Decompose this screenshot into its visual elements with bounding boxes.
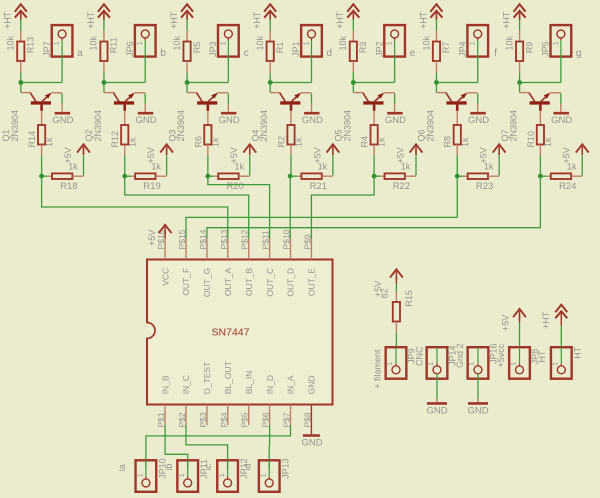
svg-text:R15: R15 [404,290,414,307]
ground symbol at Q3 [221,112,237,115]
wire R13 to node [20,61,22,72]
wire R22 to +5V [405,175,416,177]
connector JP1 [301,25,322,56]
wire segment e to SN7447 [311,178,374,239]
wire R7 to node [435,61,437,72]
svg-text:+5vcc: +5vcc [496,343,506,367]
ground symbol at Q2 [138,112,154,115]
wire R15 to JP9 [395,322,397,334]
svg-text:1: 1 [52,41,61,45]
svg-text:OUT_G: OUT_G [202,268,212,297]
wire +5V to R15 [395,276,397,284]
svg-text:2N3904: 2N3904 [425,110,435,142]
svg-text:BL_IN: BL_IN [244,371,254,395]
svg-text:+HT: +HT [541,311,551,329]
svg-text:10k: 10k [172,35,182,50]
svg-text:g: g [576,48,582,59]
connector JP11 [177,460,198,492]
wire JP14 to GND [436,374,438,399]
wire net ia : IN_A (P$7) to JP10 [146,425,291,469]
resistor R7 [433,42,440,62]
wire emitter Q4 to GND [310,94,312,104]
wire node to collector Q4 [269,81,271,84]
svg-text:ic: ic [203,464,213,471]
resistor R4 [371,125,378,145]
svg-text:10k: 10k [421,35,431,50]
resistor R14 [38,125,45,145]
svg-text:R21: R21 [310,181,327,192]
svg-text:P$5: P$5 [240,412,250,427]
svg-text:+5V: +5V [395,147,405,163]
wire +HT to R11 [103,15,105,20]
svg-text:1: 1 [135,473,144,477]
pin P$7 stub (bottom) [290,405,292,426]
pin P$6 stub (bottom) [269,405,271,426]
svg-text:2N3904: 2N3904 [176,110,186,142]
wire +HT to R1 [269,15,271,20]
svg-text:+5V: +5V [63,147,73,163]
svg-text:1: 1 [467,362,476,366]
svg-text:HT: HT [537,350,547,362]
svg-text:D_TEST: D_TEST [202,362,212,395]
resistor R21 [301,173,321,179]
junction node R2/R21 [288,174,293,179]
wire +HT to R7 [435,15,437,20]
power +HT arrow (segment g column) [514,4,526,12]
wire JP3 to node [227,57,229,83]
pin P$1 stub (bottom) [164,405,166,426]
svg-text:1: 1 [177,473,186,477]
wire node to collector Q7 [519,81,521,84]
svg-text:a: a [77,48,83,59]
wire R1 to node [269,61,271,72]
svg-text:P$11: P$11 [261,230,271,249]
power +5V arrow at R15 [390,269,403,277]
svg-text:f: f [494,48,497,59]
svg-text:+5V: +5V [229,147,239,163]
svg-text:R10: R10 [526,131,536,148]
svg-text:+HT: +HT [169,11,179,29]
svg-text:VCC: VCC [160,268,170,286]
resistor R6 [204,125,211,145]
connector JP14 [427,347,448,379]
pin P$10 stub (top) [290,239,292,260]
svg-text:1k: 1k [44,137,54,147]
svg-text:1: 1 [218,41,227,45]
connector JP6 [135,25,156,56]
junction node collector Q7 [517,80,522,85]
resistor R22 [385,173,405,179]
resistor R20 [218,173,238,179]
wire emitter Q6 to GND [477,94,479,104]
transistor Q2 [104,83,145,111]
wire segment f to SN7447 [186,178,457,239]
power +5V arrow at R20 [243,144,256,152]
svg-text:GND: GND [135,115,156,126]
resistor R19 [135,173,155,179]
wire node to collector Q3 [186,81,188,84]
wire R14 to node [41,145,43,156]
wire node to collector Q5 [352,81,354,84]
junction node R4/R22 [372,174,377,179]
IC notch [146,323,150,337]
transistor Q5 [353,83,394,111]
svg-text:+5V: +5V [147,230,157,246]
svg-text:1: 1 [550,362,559,366]
wire node to R20 [208,175,214,177]
resistor R9 [516,42,523,62]
wire R9 to node [519,61,521,72]
wire JP1 to node [310,57,312,83]
svg-text:GND: GND [307,375,317,394]
transistor Q7 [520,83,561,111]
resistor R8 [454,125,461,145]
svg-text:IN_C: IN_C [181,375,191,394]
junction node collector Q2 [102,80,107,85]
svg-text:R24: R24 [559,181,576,192]
svg-text:JP6: JP6 [125,41,135,57]
wire emitter Q2 to GND [144,94,146,104]
svg-text:1k: 1k [543,137,553,147]
connector JP8 [509,347,530,379]
wire base Q3 to R6 [207,111,209,125]
svg-text:+5V: +5V [146,147,156,163]
svg-text:P$12: P$12 [240,229,250,249]
svg-text:GND: GND [467,405,488,416]
ground symbol at JP14 [427,402,447,405]
svg-text:2N3904: 2N3904 [93,110,103,142]
wire R20 to +5V [239,175,250,177]
svg-text:R1: R1 [275,42,285,54]
svg-text:82: 82 [379,288,389,298]
connector JP5 [551,25,572,56]
svg-text:R2: R2 [276,136,286,148]
svg-text:R11: R11 [109,37,119,53]
svg-text:ia: ia [117,464,127,471]
pin P$5 stub (bottom) [248,405,250,426]
svg-text:SN7447: SN7447 [212,327,250,339]
wire segment d to SN7447 [289,178,291,239]
power +5V arrow at R18 [77,144,90,152]
svg-text:+HT: +HT [418,11,428,29]
junction node R14/R18 [39,174,44,179]
svg-text:JP5: JP5 [541,41,551,57]
pin P$3 stub (bottom) [206,405,208,426]
svg-text:R6: R6 [193,136,203,148]
wire base Q2 to R12 [124,111,126,125]
svg-text:1: 1 [259,473,268,477]
svg-text:10k: 10k [6,35,16,50]
svg-text:OUT_F: OUT_F [181,268,191,296]
ground symbol at Q4 [304,112,320,115]
svg-text:GND: GND [52,115,73,126]
wire JP2 to node [394,57,396,83]
wire R5 to node [186,61,188,72]
junction node R12/R19 [122,174,127,179]
svg-text:1: 1 [135,41,144,45]
svg-text:2N3904: 2N3904 [509,110,519,142]
connector JP4 [467,25,488,56]
wire R4 to node [373,145,375,156]
svg-text:+ filament: + filament [373,349,383,389]
svg-text:IN_A: IN_A [286,375,296,394]
wire R24 to +5V [571,175,582,177]
svg-text:Gnd 2: Gnd 2 [455,343,465,368]
svg-text:+HT: +HT [335,11,345,29]
svg-text:10k: 10k [504,35,514,50]
ground symbol at P$8 [303,434,320,437]
svg-text:JP7: JP7 [42,41,52,57]
resistor R5 [183,42,190,62]
wire net ib : IN_B (P$1) to JP11 [165,425,188,469]
svg-text:ib: ib [164,463,174,470]
wire node to R21 [290,175,297,177]
wire base Q4 to R2 [290,111,292,125]
svg-text:2N3904: 2N3904 [10,110,20,142]
wire node to collector Q1 [20,81,22,84]
svg-text:R18: R18 [60,181,77,192]
resistor R11 [100,42,107,62]
junction node collector Q6 [434,80,439,85]
ground symbol at Q7 [553,112,569,115]
svg-text:2N3904: 2N3904 [259,110,269,142]
power +5V arrow at R24 [576,144,589,152]
svg-text:OUT_D: OUT_D [286,268,296,297]
svg-text:IN_D: IN_D [265,375,275,394]
svg-text:+HT: +HT [3,11,13,29]
svg-text:GND: GND [302,115,323,126]
svg-text:OUT_E: OUT_E [307,267,317,296]
pin P$9 stub (top) [310,239,312,260]
wire emitter Q5 to GND [394,94,396,104]
pin P$2 stub (bottom) [185,405,187,426]
svg-text:1: 1 [551,41,560,45]
wire node to collector Q2 [103,81,105,84]
svg-text:HT: HT [573,346,583,358]
svg-text:10k: 10k [255,35,265,50]
svg-text:+5V: +5V [501,315,511,331]
wire R6 to node [207,145,209,156]
svg-text:GND: GND [426,405,447,416]
wire R12 to node [124,145,126,156]
svg-text:GND: GND [385,115,406,126]
svg-text:1k: 1k [460,137,470,147]
wire segment c to SN7447 [208,178,270,239]
wire +5V to JP8 [519,315,521,323]
connector JP16 [468,347,489,379]
wire R10 to node [539,145,541,156]
svg-text:1: 1 [509,362,518,366]
svg-text:R12: R12 [110,131,120,148]
power +HT arrow (segment a column) [15,4,27,12]
svg-text:R23: R23 [476,181,493,192]
svg-text:10k: 10k [89,35,99,50]
transistor Q3 [187,83,228,111]
IC U1 SN7447 body [147,260,333,405]
junction node R10/R24 [538,174,543,179]
wire net id : IN_D (P$6) to JP13 [268,425,270,469]
svg-text:+HT: +HT [86,11,96,29]
connector JP15 [551,347,572,379]
pin P$15 stub (top) [185,239,187,260]
connector JP2 [384,25,405,56]
junction node collector Q4 [268,80,273,85]
svg-text:JP1: JP1 [291,41,301,57]
wire R11 to node [103,61,105,72]
svg-text:JP4: JP4 [457,41,467,57]
svg-text:IN_B: IN_B [160,375,170,394]
wire base Q7 to R10 [539,111,541,125]
wire segment b to SN7447 [125,178,249,239]
connector JP7 [52,25,73,56]
wire segment a to SN7447 [42,178,228,239]
svg-text:BL_OUT: BL_OUT [223,361,233,394]
wire R23 to +5V [488,175,499,177]
resistor R15 [393,302,400,322]
connector JP13 [259,460,280,492]
svg-text:JP2: JP2 [374,41,384,57]
junction node collector Q3 [185,80,190,85]
power +5V arrow at R21 [326,144,339,152]
svg-text:P$9: P$9 [302,234,312,249]
svg-text:GND: GND [301,437,322,448]
ground symbol at Q1 [55,112,71,115]
junction node R8/R23 [455,174,460,179]
wire R21 to +5V [322,175,333,177]
power +HT arrow (segment f column) [430,4,442,12]
svg-text:c: c [244,48,249,59]
wire node to R19 [125,175,131,177]
resistor R18 [52,173,72,179]
resistor R3 [350,42,357,62]
wire base Q5 to R4 [373,111,375,125]
pin P$14 stub (top) [206,239,208,260]
svg-text:R7: R7 [441,42,451,54]
wire segment g to SN7447 [207,178,540,239]
svg-text:JP3: JP3 [208,41,218,57]
connector JP3 [218,25,239,56]
connector JP9 [386,347,407,379]
pin P$8 stub (bottom) [310,405,312,435]
pin P$13 stub (top) [227,239,229,260]
svg-text:OUT_B: OUT_B [244,267,254,296]
svg-text:P$3: P$3 [198,412,208,427]
svg-text:+HT: +HT [252,11,262,29]
resistor R12 [121,125,128,145]
resistor R1 [267,42,274,62]
wire R8 to node [456,145,458,156]
svg-text:1: 1 [217,473,226,477]
svg-text:e: e [410,48,416,59]
svg-text:1: 1 [468,41,477,45]
svg-text:R4: R4 [360,136,370,148]
transistor Q6 [436,83,477,111]
svg-text:1k: 1k [127,137,137,147]
wire R18 to +5V [72,175,83,177]
power +HT arrow (segment d column) [264,4,276,12]
svg-text:GND: GND [551,115,572,126]
svg-text:P$14: P$14 [198,229,208,249]
svg-text:2N3904: 2N3904 [342,110,352,142]
power +HT arrow at JP15 [555,305,567,313]
svg-text:+HT: +HT [501,11,511,29]
svg-text:R14: R14 [27,131,37,148]
pin P$11 stub (top) [269,239,271,260]
resistor R2 [287,125,294,145]
svg-text:R13: R13 [26,37,36,54]
resistor R10 [537,125,544,145]
svg-text:R22: R22 [393,181,410,192]
wire node to R23 [457,175,463,177]
wire R3 to node [352,61,354,72]
wire emitter Q1 to GND [61,94,63,104]
wire JP7 to node [61,57,63,83]
svg-text:10k: 10k [338,35,348,50]
svg-text:P$8: P$8 [302,412,312,427]
svg-text:P$10: P$10 [282,229,292,249]
power +HT arrow (segment e column) [347,4,359,12]
svg-text:R3: R3 [358,42,368,54]
connector JP12 [217,460,238,492]
wire net ic : IN_C (P$2) to JP12 [186,425,228,469]
power +HT arrow (segment c column) [181,4,193,12]
svg-text:1: 1 [301,41,310,45]
power +5V arrow at VCC [159,225,172,233]
svg-text:R8: R8 [443,136,453,148]
svg-text:1: 1 [385,41,394,45]
svg-text:1k: 1k [294,137,304,147]
wire +HT to R9 [519,15,521,20]
pin P$4 stub (bottom) [227,405,229,426]
pin P$12 stub (top) [248,239,250,260]
svg-text:CNC: CNC [415,346,425,366]
wire emitter Q7 to GND [560,94,562,104]
svg-text:R20: R20 [226,181,243,192]
pin P$16 stub (top) [164,239,166,260]
wire JP16 to GND [477,374,479,399]
power +5V arrow at JP8 [513,309,526,317]
wire node to R24 [540,175,546,177]
power +HT arrow (segment b column) [98,4,110,12]
svg-text:b: b [160,48,166,59]
wire emitter Q3 to GND [227,94,229,104]
svg-text:R5: R5 [192,42,202,54]
junction node collector Q1 [18,80,23,85]
wire JP6 to node [144,57,146,83]
svg-text:+5V: +5V [562,147,572,163]
transistor Q4 [270,83,311,111]
wire +HT to R5 [186,15,188,20]
resistor R13 [17,42,24,62]
svg-text:+5V: +5V [479,147,489,163]
wire node to R18 [42,175,48,177]
ground symbol at Q6 [470,112,486,115]
wire JP5 to node [560,57,562,83]
ground symbol at JP16 [468,402,488,405]
junction node collector Q5 [351,80,356,85]
wire R2 to node [290,145,292,156]
svg-text:P$4: P$4 [219,412,229,427]
power +5V arrow at R19 [160,144,173,152]
svg-text:id: id [243,463,253,470]
svg-text:1k: 1k [377,137,387,147]
svg-text:d: d [327,48,333,59]
junction node R6/R20 [205,174,210,179]
wire base Q1 to R14 [41,111,43,125]
svg-text:GND: GND [468,115,489,126]
svg-text:GND: GND [219,115,240,126]
svg-text:1: 1 [426,362,435,366]
